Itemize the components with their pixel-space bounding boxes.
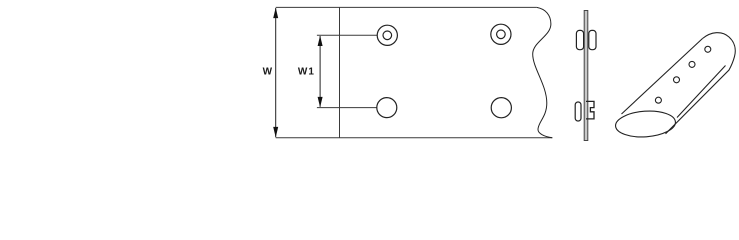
dimension W1 top extension line xyxy=(317,34,377,36)
side view tape strip xyxy=(584,11,588,141)
sprocket hole top-left inner xyxy=(383,31,392,40)
side view lower-right bracket xyxy=(586,101,594,119)
3d view top edge xyxy=(622,39,703,115)
dimension W1 line xyxy=(319,36,321,107)
dimension W top arrowhead xyxy=(273,8,278,19)
sprocket hole top-left outer xyxy=(377,25,397,45)
dimension W1 top arrowhead xyxy=(318,36,323,47)
hole bottom-right xyxy=(491,98,511,118)
tape left edge xyxy=(339,7,341,137)
sprocket hole top-right outer xyxy=(491,24,511,44)
3d view mouth ellipse xyxy=(615,109,677,139)
dimension W1 bottom arrowhead xyxy=(318,97,323,108)
svg-text:W1: W1 xyxy=(298,66,315,77)
sprocket hole top-right inner xyxy=(497,30,506,39)
3d view hole 2 xyxy=(674,77,680,83)
hole bottom-left xyxy=(377,98,397,118)
3d view inner edge line xyxy=(677,66,726,118)
dimension W line xyxy=(275,8,277,137)
3d view hole 4 xyxy=(705,46,711,52)
side view upper-left flange xyxy=(576,30,583,49)
tape top edge xyxy=(276,6,537,8)
tape bottom edge xyxy=(276,137,553,139)
dimension W1 bottom extension line xyxy=(317,107,377,109)
dimension W bottom arrowhead xyxy=(273,127,278,137)
side view lower-left flange xyxy=(575,102,581,121)
side view upper-right flange xyxy=(589,30,596,49)
svg-text:W: W xyxy=(263,66,273,77)
3d view hole 3 xyxy=(689,61,695,67)
3d view end cap and bottom edge xyxy=(666,33,736,134)
tape break line (wavy) xyxy=(533,7,553,137)
3d view hole 1 xyxy=(655,97,661,103)
